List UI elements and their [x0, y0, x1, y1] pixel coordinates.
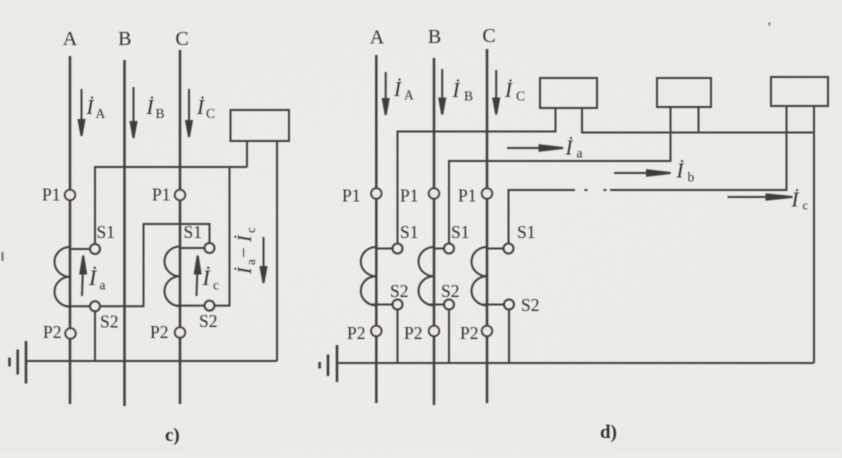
wire TA d S2 stub [372, 304, 393, 306]
scan artifact left edge [2, 252, 4, 261]
svg-text:S1: S1 [400, 222, 418, 242]
svg-text:S1: S1 [451, 222, 469, 242]
svg-text:İ: İ [393, 77, 402, 101]
svg-text:C: C [206, 106, 215, 121]
arrow current Ic secondary [195, 256, 201, 297]
wire meter2 right terminal [698, 107, 700, 133]
wire Ia from S1A to meter1 [398, 108, 556, 244]
wire meter right terminal down to bus [276, 141, 278, 361]
svg-text:c: c [803, 199, 809, 213]
transformer TB d coil [418, 247, 434, 305]
svg-text:A: A [404, 88, 414, 103]
wire Ib from S1B to meter2 [449, 107, 671, 244]
svg-text:İ: İ [196, 95, 205, 119]
svg-text:P2: P2 [150, 322, 168, 342]
terminal S2 C circle [205, 301, 215, 311]
wire phase C line d [486, 49, 489, 403]
svg-text:İ: İ [791, 188, 800, 212]
arrow current IA d [383, 72, 389, 115]
svg-text:A: A [370, 27, 385, 49]
svg-text:': ' [768, 20, 771, 36]
wire Ic solid part2 to meter3 [610, 106, 787, 190]
wire S2C d ground drop [508, 310, 510, 364]
svg-text:İ: İ [86, 95, 95, 119]
terminal P2 A d [371, 326, 381, 336]
svg-text:P1: P1 [342, 186, 360, 206]
wire TC d S2 stub [483, 304, 504, 306]
terminal S2 C d [504, 300, 514, 310]
ammeter box 3 [771, 77, 828, 106]
terminal S1 A d [393, 244, 403, 254]
terminal P1 C circle [175, 190, 185, 200]
ground symbol d [320, 345, 337, 382]
wire TC S1 stub [180, 247, 205, 249]
wire S2A d ground drop [397, 310, 399, 364]
svg-text:c: c [213, 278, 219, 293]
svg-text:İ: İ [146, 95, 155, 119]
terminal P2 C d [482, 326, 492, 336]
arrow current Ia secondary [80, 256, 86, 297]
svg-text:P2: P2 [347, 323, 365, 343]
terminal P2 A circle [65, 328, 75, 338]
terminal P1 A circle [65, 190, 75, 200]
wire meter3 right common return [813, 106, 815, 363]
svg-text:B: B [118, 28, 131, 50]
wire TC S2 stub [176, 305, 205, 307]
transformer TA coil [54, 247, 70, 307]
svg-text:d): d) [600, 422, 617, 443]
svg-text:S2: S2 [441, 281, 459, 301]
arrow current IB d [439, 69, 445, 115]
wire TA d S1 stub [376, 248, 392, 250]
terminal P2 B d [429, 326, 439, 336]
arrow current Ic wire d [728, 194, 793, 199]
terminal S1 C circle [205, 243, 215, 253]
ammeter box c [231, 110, 290, 141]
arrow current IA [79, 89, 85, 136]
terminal P1 B d [429, 188, 439, 198]
ammeter box 2 [657, 78, 711, 107]
wire TA S1 stub [70, 248, 90, 250]
terminal S1 B d [444, 244, 454, 254]
arrow current IC d [493, 70, 499, 115]
svg-text:S2: S2 [199, 311, 217, 331]
svg-text:P2: P2 [404, 323, 422, 343]
svg-text:P1: P1 [42, 185, 60, 205]
wire ground bus d [337, 362, 814, 364]
svg-text:İ: İ [565, 136, 574, 160]
wire S2A ground drop [94, 311, 96, 361]
wire Ic from S1C to meter3 solid part1 [509, 190, 576, 244]
transformer TC d coil [471, 247, 487, 305]
label Ia minus Ic rotated [233, 227, 258, 275]
transformer TC coil [164, 246, 180, 306]
terminal P2 C circle [175, 327, 185, 337]
svg-text:S2: S2 [390, 281, 408, 301]
svg-text:C: C [516, 89, 525, 104]
wire phase C line [179, 50, 182, 404]
svg-text:a: a [243, 259, 258, 265]
terminal S2 A d [393, 300, 403, 310]
wire ground bus c [26, 360, 277, 362]
ammeter box 1 [540, 78, 597, 108]
svg-text:P1: P1 [400, 186, 418, 206]
terminal P1 A d [371, 188, 381, 198]
svg-text:C: C [175, 28, 188, 50]
svg-text:B: B [156, 106, 165, 121]
svg-text:İ: İ [452, 78, 461, 102]
wire meter left terminal [246, 141, 248, 167]
wire phase A line [69, 56, 72, 404]
wire S2C to meter node [215, 167, 230, 306]
svg-text:İ: İ [233, 266, 256, 275]
svg-text:S1: S1 [97, 222, 115, 242]
wire TB d S2 stub [430, 304, 444, 306]
terminal S2 A circle [90, 301, 100, 311]
svg-text:İ: İ [676, 159, 685, 183]
wire TB d S1 stub [434, 248, 444, 250]
wire S1A to meter [95, 167, 247, 244]
svg-text:S1: S1 [184, 222, 202, 242]
svg-text:S1: S1 [517, 222, 535, 242]
svg-text:P1: P1 [152, 185, 170, 205]
svg-text:P1: P1 [458, 186, 476, 206]
transformer TA d coil [361, 247, 377, 305]
wire common bus meters [582, 108, 814, 133]
svg-text:S2: S2 [100, 312, 118, 332]
svg-text:b: b [688, 170, 695, 185]
arrow current IB [131, 87, 137, 138]
svg-text:İ: İ [504, 78, 513, 102]
svg-text:A: A [96, 106, 106, 121]
svg-text:B: B [428, 26, 441, 48]
wire TC d S1 stub [487, 248, 504, 250]
terminal P1 C d [482, 188, 492, 198]
wire TA S2 stub [66, 305, 90, 307]
wire Ic break dot 2 [604, 189, 607, 191]
terminal S1 A circle [90, 244, 100, 254]
arrow current Ib wire d [614, 170, 671, 175]
wire phase B line [123, 60, 126, 406]
svg-text:P2: P2 [460, 323, 478, 343]
svg-text:B: B [464, 89, 473, 104]
arrow current IC [186, 89, 192, 137]
svg-text:c): c) [165, 425, 180, 446]
wire Ic break dot 1 [585, 189, 588, 191]
ground symbol c [10, 341, 27, 384]
svg-text:a: a [100, 278, 106, 293]
svg-text:a: a [577, 146, 583, 161]
svg-text:A: A [63, 28, 78, 50]
wire phase B line d [433, 58, 436, 405]
wire S2A to S1C bracket [100, 224, 210, 306]
wire S2B d ground drop [448, 310, 450, 364]
terminal S1 C d [504, 244, 514, 254]
wire phase A line d [375, 55, 378, 403]
arrow current Ia wire d [507, 145, 563, 150]
svg-text:c: c [243, 227, 258, 233]
svg-text:−: − [234, 247, 255, 258]
arrow current Ia minus Ic [261, 237, 267, 283]
svg-text:İ: İ [233, 234, 256, 243]
svg-text:C: C [482, 25, 495, 47]
svg-text:S2: S2 [521, 295, 539, 315]
svg-text:P2: P2 [43, 322, 61, 342]
terminal S2 B d [444, 300, 454, 310]
